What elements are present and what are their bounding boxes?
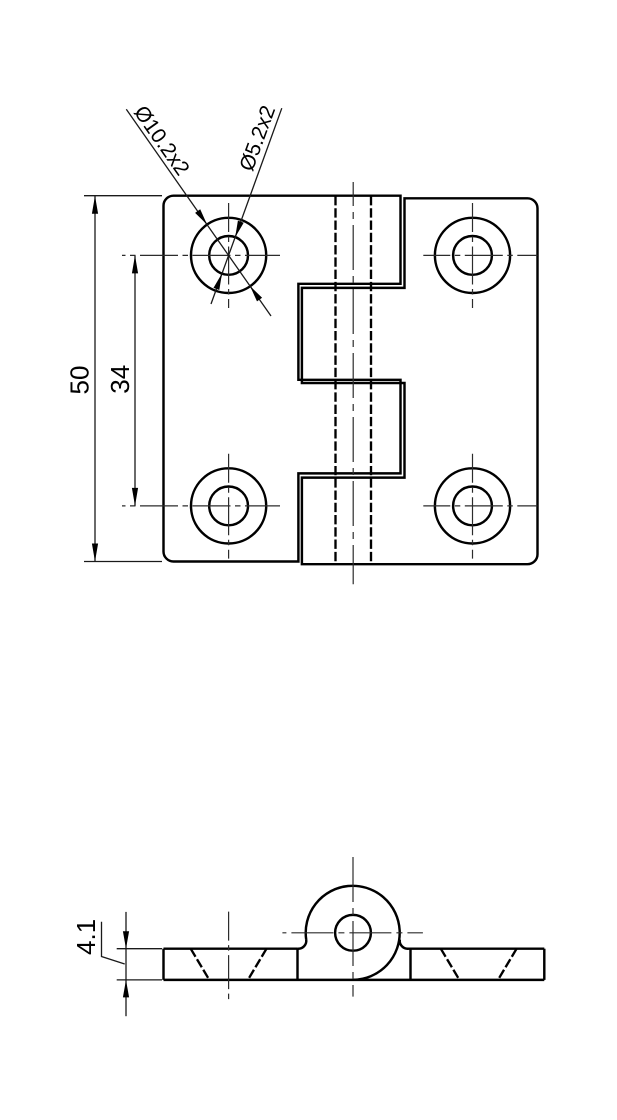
side view knuckle junction line right xyxy=(409,949,411,980)
dim 50 dimension line xyxy=(94,196,96,562)
side view bar left end xyxy=(162,949,164,980)
dim 50 extension line bottom xyxy=(84,561,162,563)
leader dia10.2 arrow at outer circle lower-right xyxy=(250,286,262,301)
dim 34 dimension line xyxy=(134,255,136,506)
centerline top-right hole horizontal xyxy=(423,254,537,256)
dim 4.1 extension line top xyxy=(117,948,162,950)
dim 4.1 arrow bottom xyxy=(123,980,129,998)
dim 34 arrow top xyxy=(132,255,138,273)
hole bottom-left inner circle xyxy=(209,487,248,526)
svg-text:34: 34 xyxy=(105,365,135,394)
side view countersink hidden line left hole right slant xyxy=(248,949,267,980)
dim 4.1 dimension line xyxy=(125,912,127,1016)
hole bottom-left outer circle xyxy=(191,468,266,543)
leader line dia 10.2 xyxy=(126,109,271,316)
side view leaf bar top edge right xyxy=(408,947,545,949)
dim 4.1 extension line bottom xyxy=(117,979,162,981)
hole top-left inner circle xyxy=(209,236,248,275)
centerline bottom-right hole vertical xyxy=(472,454,474,559)
centerline bottom-left hole vertical xyxy=(228,454,230,559)
hole top-right inner circle xyxy=(453,236,492,275)
dim 50 arrow bottom xyxy=(92,544,98,562)
hole bottom-right outer circle xyxy=(435,468,510,543)
hole top-right outer circle xyxy=(435,218,510,293)
side view pin vertical centerline xyxy=(352,857,354,997)
side view pin horizontal centerline xyxy=(282,932,423,934)
side view barrel fillet left xyxy=(298,940,307,949)
centerline bottom-left hole horizontal xyxy=(122,505,280,507)
hole bottom-right inner circle xyxy=(453,487,492,526)
svg-text:Ø10.2x2: Ø10.2x2 xyxy=(129,102,193,180)
pin axis centerline xyxy=(352,182,354,584)
hidden line pin hole right xyxy=(370,196,372,564)
dim 34 arrow bottom xyxy=(132,488,138,506)
hinge right leaf outline xyxy=(302,198,538,564)
hole top-left outer circle xyxy=(191,218,266,293)
leader dia10.2 arrow at outer circle upper-left xyxy=(195,209,207,224)
side view countersink hidden line right hole left slant xyxy=(441,949,460,980)
svg-text:4.1: 4.1 xyxy=(71,919,101,955)
side view bar bottom edge xyxy=(164,979,545,981)
side view pin hole circle xyxy=(335,915,371,951)
side view barrel fillet right xyxy=(400,940,409,949)
svg-text:50: 50 xyxy=(65,366,95,395)
dim 4.1 leader xyxy=(102,922,125,964)
side view leaf bar top edge left xyxy=(164,947,298,949)
hidden line pin hole left xyxy=(334,196,336,564)
svg-text:Ø5.2x2: Ø5.2x2 xyxy=(235,103,280,174)
centerline top-right hole vertical xyxy=(472,203,474,308)
leader dia5.2 arrow at inner circle lower-left xyxy=(214,273,223,290)
side view countersink hidden line right hole right slant xyxy=(498,949,517,980)
centerline top-left hole horizontal xyxy=(122,254,280,256)
dim 50 arrow top xyxy=(92,196,98,214)
side view knuckle junction line left xyxy=(296,949,298,980)
side view bar right end xyxy=(543,949,545,980)
centerline top-left hole vertical xyxy=(228,203,230,308)
side view left hole centerline xyxy=(228,912,230,1003)
dim 50 extension line top xyxy=(84,195,162,197)
leader dia5.2 arrow at inner circle upper-right xyxy=(235,221,244,238)
leader line dia 5.2 xyxy=(211,108,282,304)
dim 4.1 arrow top xyxy=(123,931,129,949)
side view barrel outer arc xyxy=(306,886,400,980)
hinge left leaf outline xyxy=(164,196,401,562)
centerline bottom-right hole horizontal xyxy=(423,505,537,507)
side view countersink hidden line left hole left slant xyxy=(191,949,210,980)
